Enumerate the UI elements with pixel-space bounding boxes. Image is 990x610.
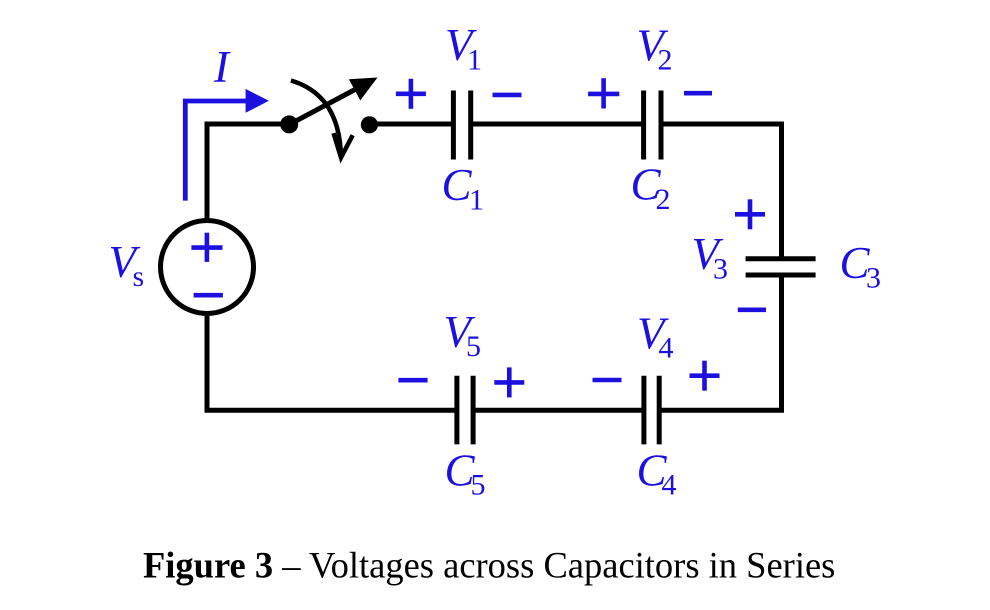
wire: source top to top-left corner to switch left node [207,124,289,219]
svg-text:5: 5 [466,330,481,363]
svg-text:4: 4 [659,332,674,365]
svg-text:3: 3 [866,262,881,295]
label V4 [637,309,674,365]
label V5 [444,307,482,363]
polarity - of V3 [738,307,766,312]
capacitor C5 [457,376,473,445]
svg-text:5: 5 [471,469,486,502]
polarity + of V1 [396,79,426,109]
switch node (left) [280,115,298,133]
label V3 [692,229,729,286]
polarity - inside source [194,293,223,298]
switch node (right) [361,116,378,133]
capacitor C3 [746,259,816,275]
wire: C2 right plate to top-right corner down to C3 top plate [663,124,782,257]
label C2 [631,160,671,217]
polarity + inside source [191,233,222,262]
wire: C1 right plate to C2 left plate [472,122,643,127]
svg-text:C: C [442,160,473,210]
polarity + of V5 [494,367,524,397]
svg-text:2: 2 [658,43,673,76]
wire: C5 left plate to bottom-left corner up to source bottom [207,316,456,410]
svg-text:1: 1 [469,184,484,217]
polarity + of V3 [735,199,765,229]
label Vs [109,237,145,293]
capacitor C2 [644,91,661,160]
label C5 [445,446,486,502]
capacitor C1 [453,91,470,160]
wire: C4 left plate to C5 right plate [475,408,643,413]
svg-text:2: 2 [656,183,671,216]
wire: switch right node to C1 left plate [369,122,452,127]
wire: C3 bottom plate to bottom-right corner to C4 right plate [661,277,782,411]
polarity - of V2 [684,91,712,96]
svg-text:s: s [133,260,145,293]
label C1 [442,160,485,217]
polarity - of V1 [493,93,522,98]
polarity + of V4 [690,361,720,391]
svg-text:3: 3 [713,253,728,286]
switch closing motion arc arrow [291,81,353,158]
label C3 [840,238,882,295]
label C4 [637,446,677,502]
switch blade with arrowhead [289,78,377,125]
polarity - of V5 [398,378,427,383]
polarity - of V4 [593,378,622,383]
svg-text:I: I [213,42,231,92]
svg-text:4: 4 [662,469,677,502]
polarity + of V2 [588,78,619,108]
svg-text:Figure 3 – Voltages across Cap: Figure 3 – Voltages across Capacitors in… [143,545,835,586]
capacitor C4 [644,376,659,445]
voltage source VS [161,221,254,314]
current arrow I [185,89,269,201]
svg-text:1: 1 [467,44,482,77]
label V2 [637,20,673,76]
label V1 [445,20,482,77]
